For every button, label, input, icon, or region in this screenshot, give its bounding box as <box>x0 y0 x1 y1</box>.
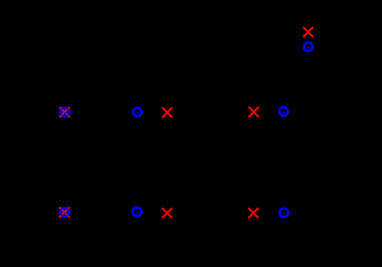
data point row2: red x at x=167 <box>162 208 172 218</box>
data point row1: red x at x=253 <box>249 107 259 117</box>
data point row2: blue o at x=137 <box>133 208 143 217</box>
legend marker: blue o (series "actual") <box>304 43 314 52</box>
data point row1: blue o at x=137 <box>133 108 143 117</box>
data point row1: red x at x=167 <box>162 107 172 117</box>
data point row2: blue o at x=283 <box>280 208 290 217</box>
data point row2: red x at x=253 <box>248 208 258 218</box>
data point row2 col1: red x under blue o (overlapping) <box>59 207 70 217</box>
data point row1: blue o at x=283 <box>279 107 289 116</box>
legend marker: red x (series "prediction") <box>303 27 313 37</box>
data point row1 col1: red x under blue o (overlapping) <box>60 107 71 117</box>
